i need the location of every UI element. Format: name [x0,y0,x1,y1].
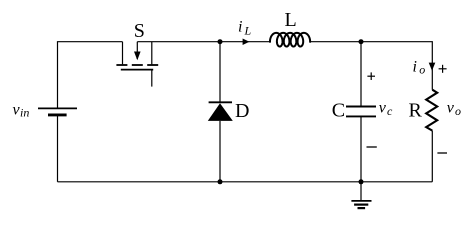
svg-text:L: L [285,9,297,31]
svg-text:o: o [455,104,461,118]
minus sign v_c [367,146,377,148]
svg-text:R: R [409,100,423,122]
svg-text:D: D [235,100,249,122]
wire bottom rail [58,181,433,183]
wire inductor right to load corner [310,42,432,90]
wire left rail below source [57,115,59,182]
svg-text:S: S [134,20,145,42]
node diode bottom junction dot [218,179,223,184]
resistor R [426,90,437,131]
svg-text:L: L [244,24,252,38]
ground [351,182,371,208]
transistor S (MOSFET switch) [116,42,158,87]
battery source v_in [38,108,77,115]
svg-text:C: C [332,100,345,122]
minus sign v_o [437,152,447,154]
wire diode anode to bottom rail [219,121,221,182]
diode D [208,102,233,121]
current arrow i_o [429,63,436,71]
svg-text:v: v [447,100,455,117]
svg-text:i: i [238,19,242,36]
inductor L [270,33,310,47]
svg-text:c: c [387,104,393,118]
wire top-left from source to switch drain [58,42,123,109]
svg-text:i: i [413,59,417,76]
node cap bottom junction dot [359,179,364,184]
node cap top junction dot [359,39,364,44]
wire capacitor branch upper [360,42,362,107]
wire switch to node A [137,41,270,43]
svg-text:o: o [419,63,425,77]
plus sign v_o [439,65,447,73]
wire capacitor branch lower [360,116,362,181]
capacitor C [346,107,376,117]
svg-text:in: in [20,106,29,120]
current arrow i_L [243,38,250,45]
svg-text:v: v [379,100,387,117]
plus sign v_c [367,72,375,80]
node A junction dot [218,39,223,44]
wire load branch lower [431,131,433,182]
wire node A down to diode cathode [219,42,221,103]
